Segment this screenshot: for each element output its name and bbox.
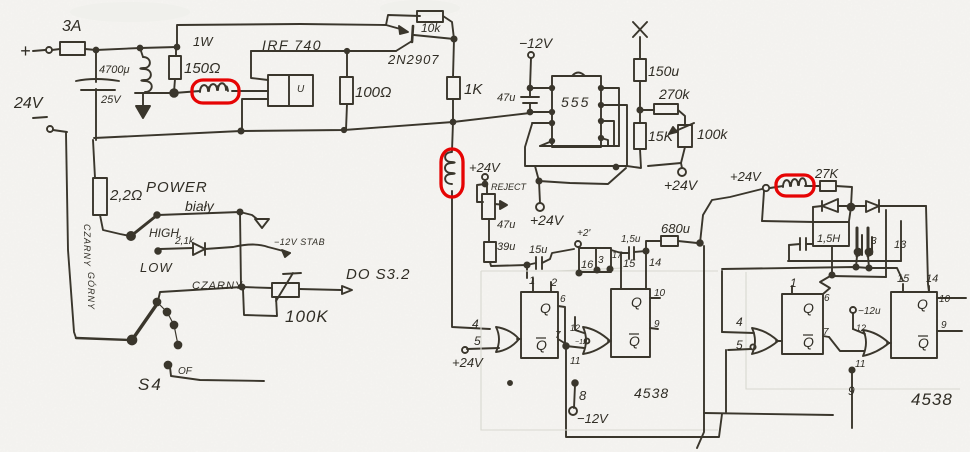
svg-text:2: 2 bbox=[550, 277, 557, 289]
svg-text:25V: 25V bbox=[100, 94, 122, 106]
svg-text:Q: Q bbox=[536, 337, 547, 353]
svg-text:2,1k: 2,1k bbox=[174, 236, 195, 247]
svg-text:12: 12 bbox=[570, 323, 580, 333]
svg-text:9: 9 bbox=[654, 319, 660, 330]
svg-text:4: 4 bbox=[472, 317, 479, 331]
svg-text:9: 9 bbox=[848, 384, 855, 398]
svg-text:−12V: −12V bbox=[519, 35, 554, 51]
svg-text:15u: 15u bbox=[529, 244, 547, 256]
svg-text:U: U bbox=[297, 84, 305, 95]
svg-text:10k: 10k bbox=[421, 21, 441, 35]
svg-text:6: 6 bbox=[560, 294, 566, 305]
svg-text:4: 4 bbox=[736, 315, 743, 329]
svg-text:39u: 39u bbox=[497, 241, 515, 253]
svg-text:27K: 27K bbox=[814, 166, 839, 181]
svg-text:+2': +2' bbox=[577, 228, 591, 239]
svg-text:DO S3.2: DO S3.2 bbox=[346, 266, 411, 283]
svg-text:555: 555 bbox=[561, 94, 590, 110]
svg-text:5: 5 bbox=[736, 338, 743, 352]
svg-text:Q: Q bbox=[631, 294, 642, 310]
svg-text:1: 1 bbox=[529, 275, 535, 287]
svg-text:3: 3 bbox=[598, 255, 604, 266]
svg-text:7: 7 bbox=[823, 327, 829, 338]
svg-text:Q: Q bbox=[803, 300, 814, 316]
svg-text:IRF 740: IRF 740 bbox=[262, 37, 322, 53]
svg-text:2N2907: 2N2907 bbox=[387, 52, 440, 67]
svg-text:100k: 100k bbox=[697, 126, 728, 142]
svg-text:3: 3 bbox=[871, 236, 877, 247]
svg-text:Q: Q bbox=[629, 333, 640, 349]
svg-text:150u: 150u bbox=[648, 63, 679, 79]
svg-text:3A: 3A bbox=[62, 18, 82, 35]
svg-text:14: 14 bbox=[926, 273, 938, 285]
svg-text:100Ω: 100Ω bbox=[355, 84, 391, 101]
svg-text:11: 11 bbox=[855, 359, 865, 370]
svg-text:4538: 4538 bbox=[911, 390, 953, 409]
svg-text:POWER: POWER bbox=[146, 179, 208, 196]
svg-text:Q: Q bbox=[917, 296, 928, 312]
svg-text:biały: biały bbox=[185, 198, 215, 214]
svg-text:+24V: +24V bbox=[730, 169, 762, 184]
svg-text:+: + bbox=[20, 41, 31, 61]
svg-text:14: 14 bbox=[649, 257, 661, 269]
svg-text:15: 15 bbox=[897, 273, 910, 285]
svg-text:1,5u: 1,5u bbox=[621, 234, 641, 245]
svg-text:REJECT: REJECT bbox=[491, 182, 528, 192]
svg-text:270k: 270k bbox=[658, 86, 690, 102]
svg-text:S4: S4 bbox=[138, 375, 163, 394]
svg-text:2,2Ω: 2,2Ω bbox=[109, 187, 142, 204]
svg-text:GÓRNY: GÓRNY bbox=[86, 272, 96, 310]
svg-text:−12: −12 bbox=[575, 339, 587, 346]
svg-text:4538: 4538 bbox=[634, 385, 669, 401]
svg-text:12: 12 bbox=[856, 323, 866, 333]
svg-text:4700μ: 4700μ bbox=[99, 64, 130, 76]
svg-text:1: 1 bbox=[790, 276, 797, 290]
svg-text:47u: 47u bbox=[497, 219, 515, 231]
svg-text:24V: 24V bbox=[13, 95, 44, 112]
svg-text:LOW: LOW bbox=[140, 260, 173, 275]
svg-text:+24V: +24V bbox=[452, 355, 484, 370]
svg-text:17: 17 bbox=[612, 250, 623, 260]
svg-text:9: 9 bbox=[941, 320, 947, 331]
svg-text:8: 8 bbox=[579, 388, 587, 403]
svg-text:47u: 47u bbox=[497, 92, 515, 104]
svg-text:680u: 680u bbox=[661, 221, 690, 236]
svg-text:11: 11 bbox=[570, 356, 580, 367]
svg-text:5: 5 bbox=[474, 334, 481, 348]
svg-text:16: 16 bbox=[581, 259, 594, 271]
svg-text:Q: Q bbox=[918, 335, 929, 351]
svg-text:−12V STAB: −12V STAB bbox=[274, 237, 325, 247]
svg-text:CZARNY: CZARNY bbox=[192, 280, 243, 292]
svg-text:100K: 100K bbox=[285, 307, 329, 326]
svg-text:+24V: +24V bbox=[469, 160, 501, 175]
svg-text:Q: Q bbox=[540, 300, 551, 316]
svg-text:6: 6 bbox=[824, 293, 830, 304]
svg-text:1K: 1K bbox=[464, 81, 483, 98]
svg-text:OF: OF bbox=[178, 366, 193, 377]
svg-text:13: 13 bbox=[894, 239, 907, 251]
svg-text:10: 10 bbox=[654, 288, 666, 299]
svg-text:7: 7 bbox=[555, 330, 561, 341]
svg-text:CZARNY: CZARNY bbox=[82, 224, 92, 267]
svg-text:+24V: +24V bbox=[664, 177, 699, 193]
svg-text:−12V: −12V bbox=[577, 411, 609, 426]
svg-text:−12u: −12u bbox=[858, 306, 881, 317]
svg-text:1W: 1W bbox=[193, 34, 214, 49]
svg-text:15K: 15K bbox=[648, 128, 674, 144]
svg-text:1,5H: 1,5H bbox=[817, 233, 840, 245]
svg-text:150Ω: 150Ω bbox=[184, 60, 220, 77]
svg-text:10: 10 bbox=[939, 294, 951, 305]
svg-text:Q: Q bbox=[803, 334, 814, 350]
svg-text:+24V: +24V bbox=[530, 212, 565, 228]
